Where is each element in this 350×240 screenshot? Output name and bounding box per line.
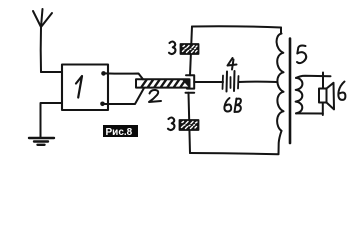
transformer secondary winding xyxy=(296,78,303,114)
speaker bottom lead xyxy=(322,103,324,116)
wire battery to transformer primary xyxy=(239,81,277,83)
wire top terminal to plug xyxy=(105,73,143,79)
transformer primary winding 5 xyxy=(277,28,284,155)
label 5 xyxy=(297,46,306,64)
wire antenna to box 1 xyxy=(41,71,62,73)
wire secondary bottom to speaker xyxy=(296,112,323,114)
wire socket to battery xyxy=(194,81,223,83)
plug rod 2 xyxy=(136,79,190,87)
box U1 (block 1) xyxy=(62,65,108,111)
label 1 xyxy=(76,76,82,98)
socket jack xyxy=(186,75,195,93)
figure label Ris.8 xyxy=(103,125,138,138)
terminal dot top xyxy=(101,71,106,76)
plug tip xyxy=(183,80,189,87)
label 4 xyxy=(228,58,237,70)
wire socket down through contact 3 bottom to corner xyxy=(189,93,191,153)
wire secondary top to speaker xyxy=(296,76,331,78)
label 3 top xyxy=(169,42,175,55)
speaker top lead xyxy=(322,73,324,89)
top wire of loop xyxy=(192,26,281,27)
speaker 6 xyxy=(319,83,334,110)
label 3 bottom xyxy=(168,118,174,131)
label 6V xyxy=(224,98,240,112)
bottom wire of loop xyxy=(190,153,279,154)
wire socket up through contact 3 top to corner xyxy=(190,27,192,76)
wire box 1 to ground xyxy=(41,103,63,137)
contact 3 top (hatched) xyxy=(181,44,199,54)
wire bottom terminal to plug xyxy=(104,88,144,104)
label 2 xyxy=(149,90,161,102)
antenna xyxy=(33,9,52,72)
contact 3 bottom (hatched) xyxy=(180,120,199,130)
terminal dot bottom xyxy=(100,102,105,107)
label 6 speaker xyxy=(338,82,345,100)
svg-text:Рис.8: Рис.8 xyxy=(106,127,133,138)
ground xyxy=(29,138,54,145)
transformer core xyxy=(289,39,292,144)
battery 4 (6V plates) xyxy=(223,71,239,92)
